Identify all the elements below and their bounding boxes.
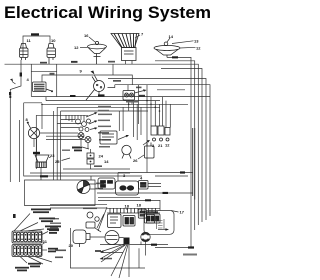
- svg-text:17: 17: [180, 210, 185, 215]
- dark text above box F: [146, 211, 158, 213]
- wire r5: [157, 89, 185, 91]
- battery arrow: [158, 229, 166, 231]
- wire row 193: [97, 192, 193, 194]
- label R2 text: [48, 248, 58, 253]
- wire right horizontals: [118, 173, 193, 177]
- wire third left vertical: [53, 111, 55, 169]
- wire under fuse: [98, 197, 160, 210]
- node bulb feed: [27, 122, 29, 124]
- connector dash row 193: [163, 192, 169, 194]
- arrow near 26: [143, 141, 149, 145]
- connector block 21 top: [12, 231, 42, 243]
- part number: [183, 254, 197, 256]
- label near stack: [94, 165, 102, 167]
- wire cluster horizontals low: [40, 133, 85, 140]
- small box 18: [138, 209, 146, 218]
- horn 12: [88, 41, 107, 64]
- svg-text:24: 24: [99, 154, 104, 159]
- solenoid 20: [73, 230, 90, 247]
- leader 18: [126, 208, 128, 210]
- connector dash mid3: [139, 95, 145, 97]
- wire plug top loop: [23, 36, 50, 57]
- leader 17: [171, 211, 179, 213]
- svg-text:12: 12: [196, 46, 201, 51]
- label on wire A 2: [108, 61, 115, 63]
- label 14: [167, 38, 170, 42]
- horn cap dash: [33, 152, 40, 154]
- connector dash row 172: [180, 171, 185, 173]
- box E: [123, 216, 135, 227]
- wire r2: [155, 61, 195, 230]
- regulator 4: [33, 82, 52, 92]
- stack box dots: [90, 155, 92, 163]
- spark plug 10: [47, 44, 56, 65]
- lamp 13: [154, 42, 180, 57]
- horn 23: [35, 155, 49, 168]
- wire mid-bottom link: [91, 173, 118, 182]
- relay arrow: [135, 91, 145, 94]
- bottom labels: [20, 257, 52, 265]
- connector dash mid2: [98, 94, 105, 96]
- wire bus left verticals: [42, 97, 61, 169]
- svg-text:25: 25: [55, 159, 60, 164]
- generator dark ring top: [142, 233, 150, 236]
- wire stack drop: [90, 164, 92, 169]
- wire gen drop: [100, 242, 168, 256]
- svg-text:10: 10: [51, 38, 56, 43]
- fan arrowheads: [100, 250, 104, 260]
- svg-text:16: 16: [84, 33, 89, 38]
- text row under key: [83, 208, 97, 210]
- svg-text:12: 12: [165, 143, 170, 148]
- wire fuse right links: [148, 184, 161, 187]
- connector pins cluster: [76, 119, 91, 132]
- tick row: [107, 208, 160, 213]
- hour meter: [122, 145, 131, 158]
- stack boxes: [87, 153, 94, 164]
- svg-text:18: 18: [137, 203, 142, 208]
- heavy vertical pair: [193, 128, 195, 200]
- wire ammeter links: [90, 236, 124, 239]
- arrowheads cluster: [94, 112, 97, 130]
- enclosure box: [24, 103, 142, 176]
- dark blob cluster: [72, 147, 82, 152]
- wire bulb drop: [33, 139, 35, 147]
- leader 25: [62, 158, 71, 161]
- leader texts top: [31, 209, 61, 231]
- battery terminal label: [147, 213, 153, 215]
- leader 23: [49, 157, 51, 159]
- dash on bottom border: [188, 246, 194, 248]
- svg-text:14: 14: [104, 159, 109, 164]
- battery box: [144, 211, 174, 235]
- right text column: [98, 106, 112, 148]
- leader labels top: [14, 214, 44, 232]
- leader 21: [42, 243, 45, 245]
- connector dash on left vertical: [9, 92, 11, 96]
- ignition switch 9: [86, 76, 105, 101]
- wire relay feed: [108, 85, 211, 216]
- wire above rect: [30, 172, 130, 174]
- label R1 text: [49, 229, 59, 234]
- box F: [145, 214, 161, 223]
- label small left: [62, 150, 70, 151]
- ammeter: [105, 231, 119, 245]
- connector dash mid1: [70, 95, 76, 97]
- connector dash lamp row: [172, 56, 178, 58]
- label on bracket: [50, 73, 55, 75]
- wire speaker stubs: [126, 61, 133, 65]
- arrow from text block: [118, 136, 127, 140]
- label top wire: [31, 33, 39, 35]
- wire drops to text block: [119, 100, 141, 140]
- battery inner box: [147, 215, 155, 224]
- svg-text:18: 18: [125, 204, 130, 209]
- ticks: [110, 208, 156, 213]
- svg-text:Electrical Wiring System: Electrical Wiring System: [4, 4, 211, 22]
- wire horn drop: [37, 139, 42, 180]
- wires to bottom cluster: [50, 204, 107, 208]
- key symbol: [91, 71, 95, 75]
- leader blob: [82, 147, 89, 149]
- node regulator output: [51, 90, 53, 92]
- wire A main horizontal: [5, 64, 199, 225]
- plus mark: [13, 214, 16, 218]
- svg-text:13: 13: [194, 39, 199, 44]
- wire bus lines middle: [42, 101, 188, 111]
- fan wires: [100, 244, 129, 278]
- dash: [145, 199, 151, 201]
- wire cluster drops: [66, 115, 84, 122]
- junction dots: [9, 96, 160, 112]
- diagonals left of cluster: [97, 207, 107, 231]
- wire left vertical b: [19, 120, 21, 182]
- generator circle: [141, 232, 150, 241]
- key switch labels: [95, 183, 104, 190]
- wire bracket stubs: [31, 64, 56, 71]
- speaker 7: [111, 34, 139, 61]
- dash on wire 244: [151, 244, 157, 246]
- cluster arrows: [86, 113, 96, 130]
- key switch leads: [90, 184, 96, 189]
- wire solenoid enclosure: [70, 228, 145, 268]
- generator dark ring bottom: [142, 238, 150, 241]
- key switch 2: [77, 181, 90, 194]
- right side label R2: [42, 249, 47, 251]
- block A pin dots: [14, 234, 41, 240]
- verticals right mid: [147, 85, 170, 173]
- wire drops to rect: [54, 169, 61, 180]
- dark connector blob: [124, 238, 130, 245]
- label on wire A mid: [71, 61, 78, 63]
- block B pin dots: [14, 248, 41, 254]
- x-circles lower: [78, 133, 91, 143]
- box D: [108, 214, 122, 228]
- inner box: [36, 115, 88, 169]
- wire lamp row: [155, 57, 191, 247]
- wire regulator top: [42, 75, 132, 85]
- leader 12: [80, 47, 88, 49]
- wire r4: [108, 79, 206, 221]
- spark plug 11: [20, 44, 29, 61]
- right side label R1: [42, 232, 48, 235]
- wire r3: [161, 69, 202, 223]
- wire A drop: [112, 64, 114, 75]
- leader 26: [138, 155, 144, 159]
- wire h1 row: [101, 252, 123, 254]
- wire relay drops: [129, 85, 139, 124]
- battery plates: [157, 219, 165, 229]
- svg-text:14: 14: [169, 34, 174, 39]
- label on bus: [126, 101, 138, 103]
- relay 15: [123, 91, 135, 101]
- wire switch bus: [31, 96, 210, 98]
- fuse box B: [116, 181, 139, 195]
- label 12b: [180, 46, 196, 49]
- big blank rect: [25, 180, 96, 206]
- label relay arrow: [136, 87, 142, 89]
- svg-text:26: 26: [133, 158, 138, 163]
- label BLACK: [113, 80, 121, 82]
- svg-text:21: 21: [158, 143, 163, 148]
- leader 16: [89, 37, 95, 42]
- fuse box C: [139, 181, 149, 190]
- svg-text:12: 12: [74, 45, 79, 50]
- dash on enclosure bottom: [40, 175, 48, 177]
- fuse box A: [98, 178, 115, 189]
- text block box: [100, 131, 117, 144]
- leader 7: [135, 35, 140, 38]
- tiny labels: [95, 250, 112, 259]
- labels left of cluster: [50, 218, 61, 228]
- label texts bottom: [15, 263, 41, 272]
- right connector cluster: [151, 126, 170, 141]
- wire plug11 drop: [10, 60, 21, 182]
- wire bottom-right vertical: [138, 248, 140, 268]
- arrow symbol: [10, 79, 13, 82]
- wire cluster horizontals: [57, 120, 81, 128]
- wire x-circle drops: [81, 139, 91, 154]
- connector dash on drop: [20, 73, 22, 77]
- light bulb left: [28, 124, 40, 139]
- svg-text:23: 23: [50, 153, 55, 158]
- cluster above solenoid: [86, 212, 101, 232]
- regulator bracket: [31, 71, 56, 96]
- wire cluster bottom: [63, 168, 130, 170]
- svg-text:20: 20: [69, 243, 74, 248]
- connector block 21 bottom: [12, 245, 42, 257]
- component 26: [145, 143, 155, 159]
- label on wire A: [40, 62, 47, 64]
- label 13: [172, 41, 194, 44]
- left margin labels: [55, 250, 66, 259]
